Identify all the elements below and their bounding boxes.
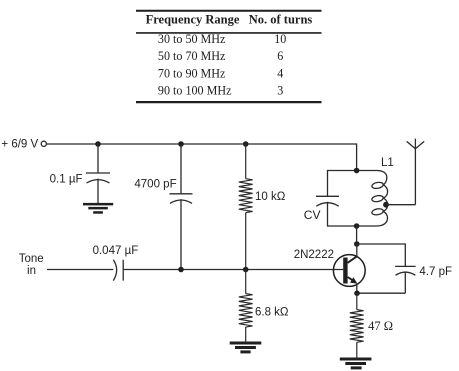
wire: tank bottom bbox=[328, 225, 378, 227]
svg-text:10 kΩ: 10 kΩ bbox=[255, 191, 286, 203]
svg-text:4.7 pF: 4.7 pF bbox=[419, 266, 452, 278]
capacitor C3 0.047uF bbox=[113, 260, 123, 281]
wire: C4 top branch bbox=[357, 244, 406, 266]
svg-text:6: 6 bbox=[277, 49, 283, 63]
capacitor C4 4.7pF bbox=[395, 266, 415, 293]
node: rail / R1 bbox=[243, 141, 249, 147]
svg-text:L1: L1 bbox=[381, 157, 394, 169]
table bottom rule bbox=[136, 101, 322, 103]
node: C2 / base line bbox=[178, 267, 184, 273]
wire: tank bottom to collector node bbox=[356, 226, 358, 244]
table top rule bbox=[136, 10, 322, 12]
capacitor C1 0.1uF bbox=[86, 144, 110, 203]
capacitor CV branch bbox=[316, 170, 339, 227]
svg-text:30 to 50 MHz: 30 to 50 MHz bbox=[158, 32, 226, 46]
ground (R3) bbox=[340, 358, 372, 370]
svg-text:2N2222: 2N2222 bbox=[294, 249, 334, 261]
wire: tank top bbox=[328, 170, 378, 172]
node: collector / C4 bbox=[354, 241, 360, 247]
svg-text:70 to 90 MHz: 70 to 90 MHz bbox=[158, 66, 226, 80]
svg-text:+ 6/9 V: + 6/9 V bbox=[1, 138, 38, 150]
svg-text:90 to 100 MHz: 90 to 100 MHz bbox=[158, 84, 232, 98]
resistor R2 6.8k bbox=[239, 270, 253, 342]
wire: rail corner down to tank bbox=[356, 143, 358, 170]
svg-text:in: in bbox=[27, 265, 36, 277]
antenna bbox=[407, 139, 425, 205]
svg-text:0.1 µF: 0.1 µF bbox=[50, 173, 83, 185]
transistor Q1 2N2222 bbox=[333, 255, 365, 287]
node: tank top bbox=[354, 168, 360, 174]
resistor R3 47 bbox=[350, 293, 364, 357]
svg-text:6.8 kΩ: 6.8 kΩ bbox=[255, 307, 289, 319]
svg-text:4: 4 bbox=[277, 66, 283, 80]
inductor L1 coil bbox=[371, 171, 387, 227]
ground (C1) bbox=[83, 203, 113, 214]
supply terminal circle bbox=[41, 141, 46, 146]
capacitor C2 4700pF bbox=[170, 144, 193, 270]
wire: C4 bottom branch bbox=[357, 292, 405, 294]
svg-text:10: 10 bbox=[274, 32, 286, 46]
svg-text:47 Ω: 47 Ω bbox=[368, 319, 393, 333]
node: R1 / base line bbox=[243, 267, 249, 273]
svg-text:50 to 70 MHz: 50 to 70 MHz bbox=[158, 49, 226, 63]
node: L1 tap bbox=[383, 202, 389, 208]
wire: emitter down bbox=[356, 284, 358, 293]
wire: base line bbox=[123, 269, 343, 271]
svg-text:0.047 µF: 0.047 µF bbox=[93, 245, 139, 257]
node: emitter junction bbox=[354, 290, 360, 296]
wire: top supply rail bbox=[47, 143, 357, 145]
svg-text:Frequency Range: Frequency Range bbox=[146, 12, 240, 26]
svg-text:3: 3 bbox=[277, 84, 283, 98]
node: tank bottom bbox=[354, 223, 360, 229]
svg-text:4700 pF: 4700 pF bbox=[134, 179, 176, 191]
node: rail / C1 bbox=[95, 141, 101, 147]
node: rail / C2 bbox=[178, 141, 184, 147]
svg-text:CV: CV bbox=[304, 208, 321, 222]
wire: tone input bbox=[47, 269, 113, 271]
wire: tap to antenna bbox=[386, 204, 415, 206]
ground (R2) bbox=[230, 342, 262, 354]
svg-text:Tone: Tone bbox=[19, 253, 44, 265]
resistor R1 10k bbox=[239, 144, 253, 270]
table header rule bbox=[136, 32, 322, 34]
wire: collector up bbox=[356, 244, 358, 256]
svg-text:No. of turns: No. of turns bbox=[249, 12, 313, 26]
